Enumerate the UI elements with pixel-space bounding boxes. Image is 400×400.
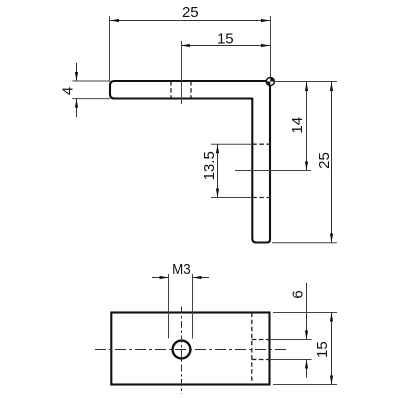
dimension 15 bottom: up arrow xyxy=(330,313,333,322)
dimension 6: dimension line lower segment xyxy=(306,360,308,378)
hole centerline (top view, vertical) xyxy=(181,41,183,104)
dimension 15 top: left arrow xyxy=(181,44,190,47)
dimension 6: extension line bottom xyxy=(270,359,312,361)
dimension 25 right: dimension line xyxy=(331,82,333,243)
hidden hole edge right (top view) xyxy=(190,81,192,99)
dimension 25 right: extension line bottom xyxy=(272,242,337,244)
dimension 15 top: right arrow xyxy=(261,44,270,47)
svg-text:25: 25 xyxy=(316,152,333,169)
dimension 25 right: down arrow xyxy=(330,234,333,243)
bottom view: hidden slot edge bottom xyxy=(252,359,270,361)
dimension 6: extension line top xyxy=(270,339,312,341)
slot hidden edge top (top view) xyxy=(252,143,270,145)
dimension M3: extension line right xyxy=(192,274,194,339)
dimension 13.5: dimension line xyxy=(217,144,219,197)
dimension 4 left: extension line bottom xyxy=(72,98,110,100)
bottom view: M3 hole circle xyxy=(173,341,191,359)
dimension 25 top: extension line left xyxy=(109,16,111,81)
dimension 4 left: extension line top xyxy=(72,80,110,82)
svg-text:15: 15 xyxy=(217,31,234,48)
dimension 15 top: dimension line xyxy=(181,45,270,47)
dimension 25 top: right arrow xyxy=(261,19,270,22)
dimension 4 left: dimension line upper segment xyxy=(76,63,78,81)
bottom view: plan rectangle xyxy=(111,313,269,385)
dimension 13.5: extension line bottom xyxy=(211,197,252,199)
dimension 15 bottom: dimension line xyxy=(331,313,333,385)
svg-text:M3: M3 xyxy=(172,261,191,278)
dimension M3: extension line left xyxy=(168,274,170,339)
svg-text:13.5: 13.5 xyxy=(201,151,218,180)
dimension 6: up arrow xyxy=(305,360,308,369)
top view: L-bracket side elevation outline xyxy=(110,81,270,243)
dimension M3: dimension line right tail xyxy=(193,277,210,279)
dimension 6: dimension line upper segment xyxy=(306,283,308,340)
dimension 14 right: down arrow xyxy=(305,162,308,171)
dimension 14 right: dimension line xyxy=(306,82,308,171)
dimension 4 left: down arrow xyxy=(75,72,78,81)
svg-text:25: 25 xyxy=(182,4,199,21)
hidden hole edge left (top view) xyxy=(170,81,172,99)
dimension 15 bottom: down arrow xyxy=(330,376,333,385)
slot centerline (top view, horizontal) xyxy=(235,170,311,172)
dimension 25 right: up arrow xyxy=(330,82,333,91)
dimension M3: left-pointing arrow xyxy=(193,276,202,279)
dimension 15 bottom: extension line bottom xyxy=(273,384,337,386)
shared extension line from corner dot (right, horizontal) xyxy=(275,81,337,83)
corner reference dot (centroid marker) xyxy=(266,77,276,87)
bottom view: horizontal centerline through hole xyxy=(95,349,289,351)
svg-text:4: 4 xyxy=(60,87,77,95)
dimension 25 top: dimension line xyxy=(110,20,270,22)
dimension M3: dimension line left tail xyxy=(152,277,169,279)
svg-text:14: 14 xyxy=(289,117,306,134)
bottom view: hidden slot edge top xyxy=(252,339,270,341)
slot hidden edge bottom (top view) xyxy=(252,197,270,199)
bottom view: vertical centerline through hole xyxy=(181,307,183,395)
bottom view: hidden bend line xyxy=(251,313,253,385)
dimension 13.5: down arrow xyxy=(216,189,219,198)
dimension 6: down arrow xyxy=(305,331,308,340)
dimension 4 left: dimension line lower segment xyxy=(76,99,78,118)
dimension 25 top: extension line right xyxy=(270,16,272,77)
dimension 13.5: extension line top xyxy=(211,143,252,145)
svg-text:15: 15 xyxy=(314,341,331,358)
dimension 4 left: up arrow xyxy=(75,99,78,108)
dimension M3: right-pointing arrow xyxy=(160,276,169,279)
dimension 15 bottom: extension line top xyxy=(273,312,337,314)
svg-text:6: 6 xyxy=(289,290,306,298)
dimension 25 top: left arrow xyxy=(110,19,119,22)
dimension 14 right: up arrow xyxy=(305,82,308,91)
dimension 13.5: up arrow xyxy=(216,144,219,153)
